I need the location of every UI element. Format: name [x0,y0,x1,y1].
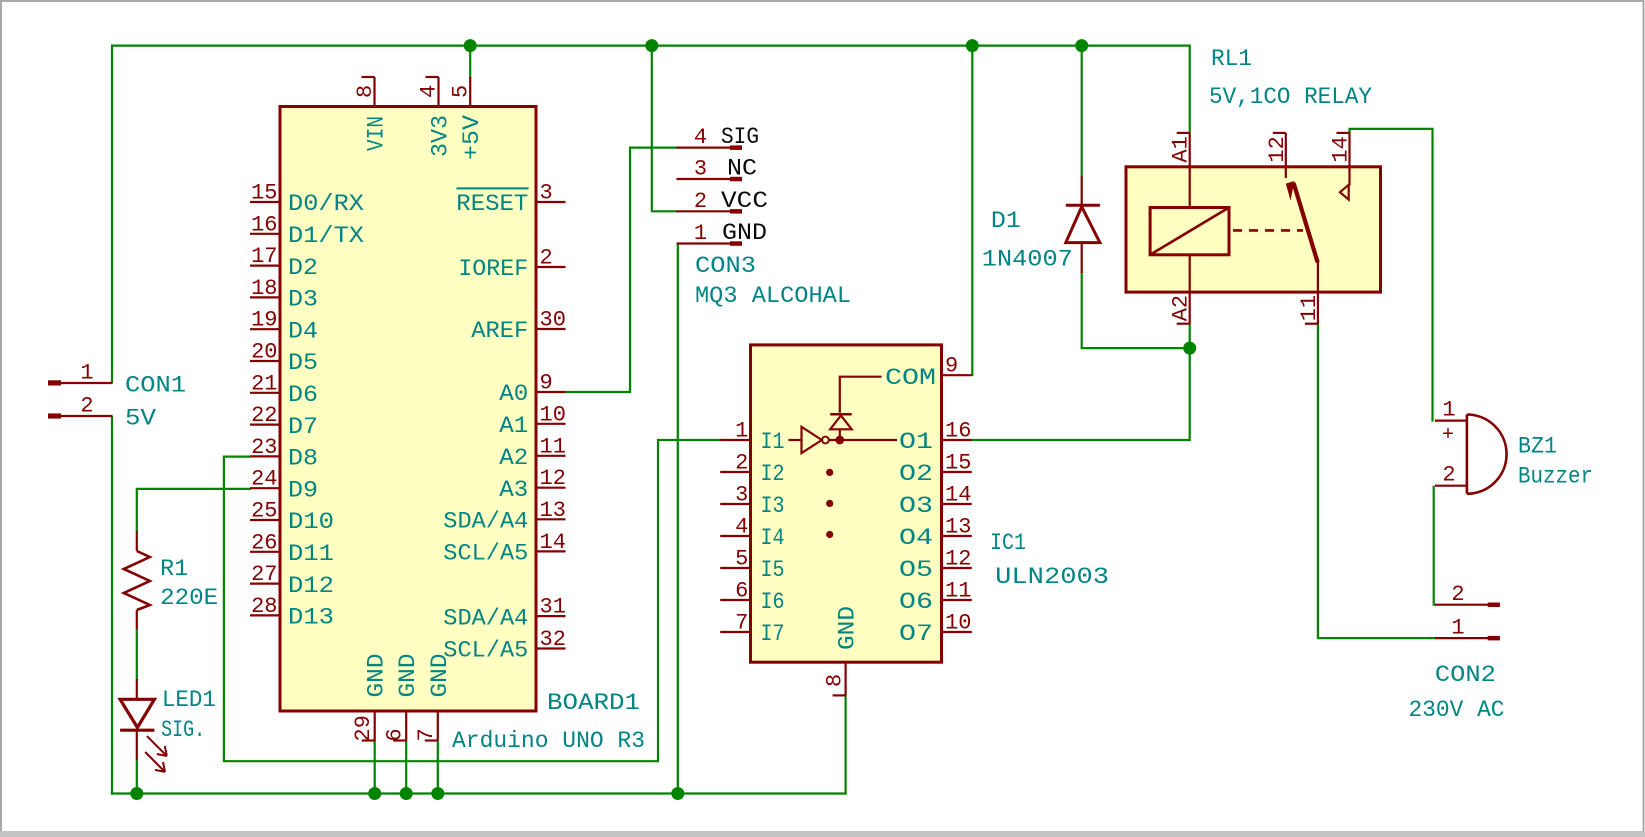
pin 6 I6 [720,599,751,601]
wire top rail to CON3 VCC [652,45,678,212]
wire D1 cathode to A2 node [1082,272,1191,348]
svg-text:SDA/A4: SDA/A4 [443,509,528,535]
svg-text:IC1: IC1 [990,530,1026,556]
svg-text:CON1: CON1 [125,373,186,399]
junction GND6 / rail [400,787,413,800]
pin 10 O7 [941,631,972,633]
inverter buffer I1 [788,439,801,441]
pin 14 SCL/A5 [536,550,566,552]
svg-text:O3: O3 [899,493,933,519]
COM internal connection [840,377,882,413]
svg-text:10: 10 [945,611,971,636]
svg-text:D6: D6 [288,382,318,408]
svg-text:I6: I6 [761,589,785,615]
pin 1 I1 [720,439,751,441]
relay RL1 body [1126,167,1381,292]
pin 27 D12 [250,582,281,584]
svg-text:5: 5 [735,547,748,572]
svg-text:3: 3 [735,483,748,508]
wire CON3 GND to bottom rail [677,243,679,795]
svg-text:2: 2 [1451,582,1464,607]
svg-text:CON3: CON3 [695,253,756,279]
svg-text:14: 14 [1329,136,1354,162]
svg-text:A2: A2 [499,445,528,471]
svg-text:12: 12 [1265,136,1290,162]
wire top rail to relay A1 [1189,45,1191,134]
svg-text:7: 7 [414,728,439,741]
svg-text:SDA/A4: SDA/A4 [443,605,528,631]
svg-text:A3: A3 [499,477,528,503]
svg-text:A0: A0 [499,381,528,407]
svg-text:1: 1 [1451,616,1464,641]
wire GND pin6 to rail [405,740,407,795]
svg-text:13: 13 [540,498,566,523]
svg-text:MQ3 ALCOHAL: MQ3 ALCOHAL [695,283,851,309]
junction LED1 / bottom rail [130,787,143,800]
svg-text:220E: 220E [160,585,218,611]
wire GND bottom rail [111,792,847,794]
wire O1 to A2 node [972,323,1190,440]
svg-text:15: 15 [945,451,971,476]
pin 7 I7 [720,631,751,633]
svg-text:230V AC: 230V AC [1409,697,1505,723]
pin 30 AREF [536,328,566,330]
junction rail / D1 [1075,39,1088,52]
svg-text:A2: A2 [1169,295,1194,321]
pin 21 D6 [250,392,281,394]
svg-text:D8: D8 [288,446,318,472]
diode D1 1N4007 [1081,176,1083,206]
pin 11 O6 [941,599,972,601]
pin 4 I4 [720,535,751,537]
pin 12 A3 [536,487,566,489]
connector CON2 pin 1 [1435,637,1489,639]
svg-text:27: 27 [251,562,277,587]
pin 15 O2 [941,471,972,473]
svg-text:O2: O2 [899,461,933,487]
svg-text:1: 1 [1442,398,1455,423]
pin 3 RESET [536,201,566,203]
pin 2 IOREF [536,266,566,268]
svg-text:ULN2003: ULN2003 [995,564,1109,590]
wire R1 to LED1 [136,629,138,680]
svg-text:I5: I5 [761,557,785,583]
wire D8 to ULN I1 [224,440,721,761]
svg-text:O4: O4 [899,525,933,551]
pin 23 D8 [250,455,281,457]
svg-text:5V: 5V [125,406,156,432]
svg-text:VIN: VIN [364,116,390,151]
svg-text:D13: D13 [288,605,334,631]
svg-text:11: 11 [945,579,971,604]
svg-text:GND: GND [427,654,453,698]
svg-text:19: 19 [251,308,277,333]
svg-text:2: 2 [540,246,553,271]
svg-text:D7: D7 [288,414,318,440]
connector CON3 pin 4 SIG [677,147,743,149]
pin 11 A2 [536,455,566,457]
svg-text:D1/TX: D1/TX [288,223,364,249]
svg-text:4: 4 [694,125,707,150]
svg-text:24: 24 [251,467,277,492]
svg-text:O6: O6 [899,589,933,615]
pin 2 I2 [720,471,751,473]
pin 20 D5 [250,360,281,362]
svg-text:RL1: RL1 [1211,46,1252,72]
pin 3 I3 [720,503,751,505]
svg-text:16: 16 [945,419,971,444]
svg-text:31: 31 [540,595,566,620]
internal junction [835,436,844,445]
svg-text:5V,1CO RELAY: 5V,1CO RELAY [1209,84,1372,110]
svg-text:2: 2 [735,451,748,476]
svg-text:18: 18 [251,276,277,301]
buzzer BZ1 pin 2 [1435,485,1468,487]
svg-text:3: 3 [694,157,707,182]
svg-text:RESET: RESET [456,191,528,217]
svg-text:16: 16 [251,212,277,237]
wire top rail to ULN COM [971,45,973,377]
svg-text:3: 3 [540,181,553,206]
connector CON1 pin 2 [48,413,61,418]
svg-text:6: 6 [382,728,407,741]
svg-text:23: 23 [251,435,277,460]
pin 14 O3 [941,503,972,505]
svg-text:11: 11 [540,434,566,459]
svg-text:12: 12 [540,466,566,491]
pin 19 D4 [250,328,281,330]
svg-text:D10: D10 [288,509,334,535]
pin 14 NO contact [1348,133,1350,185]
resistor R1 220E [136,531,138,551]
svg-text:D3: D3 [288,287,318,313]
pin 24 D9 [250,487,281,489]
svg-text:R1: R1 [160,556,188,582]
svg-text:I4: I4 [761,525,785,551]
svg-text:17: 17 [251,244,277,269]
buzzer BZ1 pin 1 [1435,420,1468,422]
pin 5 I5 [720,567,751,569]
svg-text:2: 2 [80,394,93,419]
Arduino UNO board BOARD1 body [280,107,536,712]
connector CON3 pin 3 NC [677,178,743,180]
junction CON3 GND / rail [671,787,684,800]
svg-text:1: 1 [80,361,93,386]
wire GND pin29 to rail [374,740,376,795]
svg-text:A1: A1 [1169,136,1194,162]
internal diode to COM [830,413,852,416]
svg-text:9: 9 [945,354,958,379]
pin 9 A0 [536,391,566,393]
pin 9 COM [941,374,972,376]
pin 32 SCL/A5 [536,647,566,649]
svg-text:BOARD1: BOARD1 [547,690,640,716]
svg-text:10: 10 [540,402,566,427]
svg-text:21: 21 [251,371,277,396]
svg-text:Arduino UNO R3: Arduino UNO R3 [452,728,645,754]
junction rail / CON3 VCC [645,39,658,52]
svg-text:O7: O7 [899,621,933,647]
svg-text:SCL/A5: SCL/A5 [443,638,528,664]
pin 16 D1/TX [250,233,281,235]
pin 28 D13 [250,614,281,616]
svg-text:D0/RX: D0/RX [288,191,364,217]
pin 12 O5 [941,567,972,569]
svg-text:4: 4 [735,515,748,540]
pin 10 A1 [536,423,566,425]
svg-text:O1: O1 [899,429,933,455]
buzzer BZ1 body [1467,415,1507,494]
connector CON3 pin 2 VCC [677,210,743,212]
wire +5V top rail [111,44,1191,46]
svg-text:GND: GND [835,606,861,650]
svg-text:NC: NC [727,156,757,182]
svg-text:15: 15 [251,181,277,206]
svg-text:COM: COM [885,365,936,391]
wire GND pin7 to rail [437,740,439,795]
wire CON1 pin1 to top rail [111,45,113,384]
junction rail / ULN COM [966,39,979,52]
pin 13 O4 [941,535,972,537]
svg-text:I3: I3 [761,493,785,519]
svg-text:8: 8 [823,674,848,687]
wire CON1 pin2 to bottom rail [111,416,113,795]
pin 16 O1 [941,439,972,441]
svg-text:D11: D11 [288,541,334,567]
svg-text:CON2: CON2 [1435,662,1496,688]
svg-text:29: 29 [351,715,376,741]
svg-text:VCC: VCC [721,188,768,214]
svg-text:9: 9 [540,371,553,396]
wire A0 to CON3 SIG [565,148,678,392]
svg-text:5: 5 [449,85,474,98]
svg-text:13: 13 [945,515,971,540]
svg-text:1N4007: 1N4007 [982,247,1073,273]
svg-text:2: 2 [694,189,707,214]
pin 5 +5V [469,77,471,107]
pin 22 D7 [250,424,281,426]
svg-text:GND: GND [395,654,421,698]
svg-text:O5: O5 [899,557,933,583]
svg-text:GND: GND [722,220,767,246]
svg-text:SIG: SIG [721,124,759,150]
pin 12 common contact [1285,133,1287,178]
pin 18 D3 [250,296,281,298]
pin 15 D0/RX [250,201,281,203]
svg-text:11: 11 [1297,295,1322,321]
svg-text:+5V: +5V [459,115,485,160]
svg-text:Buzzer: Buzzer [1518,463,1593,489]
svg-text:GND: GND [364,654,390,698]
wire top rail to D1 anode [1081,45,1083,177]
coil-contact link dashed [1233,229,1303,232]
svg-text:8: 8 [353,85,378,98]
svg-text:14: 14 [540,530,566,555]
connector CON2 pin 2 [1435,604,1489,606]
svg-text:14: 14 [945,483,971,508]
RESET overline [457,187,529,189]
svg-text:7: 7 [735,611,748,636]
junction GND29 / rail [368,787,381,800]
pin 29 GND [374,711,376,741]
pin 11 moving contact [1317,262,1319,324]
connector CON3 pin 1 GND [677,242,743,244]
relay coil [1150,208,1229,255]
pin 31 SDA/A4 [536,615,566,617]
pin 4 3V3 [437,77,439,107]
svg-text:IOREF: IOREF [458,256,528,282]
pin 26 D11 [250,551,281,553]
svg-text:2: 2 [1442,463,1455,488]
pin 17 D2 [250,265,281,267]
pin A2 coil [1189,255,1191,324]
svg-text:D5: D5 [288,350,318,376]
svg-text:SCL/A5: SCL/A5 [443,541,528,567]
svg-text:+: + [1442,424,1454,447]
pin 7 GND [437,711,439,741]
svg-text:D12: D12 [288,573,334,599]
wire buzzer pin2 to CON2 pin2 [1434,486,1436,605]
svg-text:28: 28 [251,594,277,619]
wire relay pin14 to buzzer pin1 [1350,129,1433,422]
junction +5V rail / pin5 [464,39,477,52]
wire ULN GND pin8 to rail [844,695,846,795]
svg-text:3V3: 3V3 [428,115,454,157]
wire LED1 to bottom rail [136,760,138,795]
svg-text:22: 22 [251,403,277,428]
svg-text:30: 30 [540,308,566,333]
wire D9 to R1 [137,489,251,532]
svg-text:D2: D2 [288,255,318,281]
svg-text:LED1: LED1 [162,687,216,713]
LED arrows [145,736,167,772]
pin 8 GND [844,661,846,695]
svg-text:I2: I2 [761,461,785,487]
svg-text:D4: D4 [288,318,318,344]
svg-text:32: 32 [540,627,566,652]
pin A1 coil [1189,133,1191,208]
svg-text:25: 25 [251,499,277,524]
ellipsis dots [826,469,833,476]
IC U1 ULN2003 body [751,345,942,662]
wire relay pin11 to CON2 pin1 [1318,323,1436,638]
junction GND7 / rail [431,787,444,800]
svg-text:AREF: AREF [471,318,528,344]
switch arm [1286,181,1295,201]
svg-text:BZ1: BZ1 [1518,433,1557,459]
svg-text:1: 1 [694,221,707,246]
LED LED1 [136,679,138,700]
pin 13 SDA/A4 [536,518,566,520]
svg-text:I7: I7 [761,621,785,647]
svg-text:12: 12 [945,547,971,572]
svg-text:20: 20 [251,340,277,365]
connector CON1 pin 1 [48,380,61,385]
svg-text:26: 26 [251,530,277,555]
junction A2 node [1183,342,1196,355]
svg-text:D1: D1 [991,208,1021,234]
svg-text:D9: D9 [288,477,318,503]
svg-text:A1: A1 [499,413,528,439]
svg-text:1: 1 [735,419,748,444]
svg-text:6: 6 [735,579,748,604]
svg-text:4: 4 [417,85,442,98]
svg-text:SIG.: SIG. [161,717,205,743]
pin 8 VIN [373,77,375,107]
svg-text:I1: I1 [761,429,785,455]
pin 6 GND [405,711,407,741]
wire +5V pin5 stub [469,45,471,79]
pin 25 D10 [250,519,281,521]
